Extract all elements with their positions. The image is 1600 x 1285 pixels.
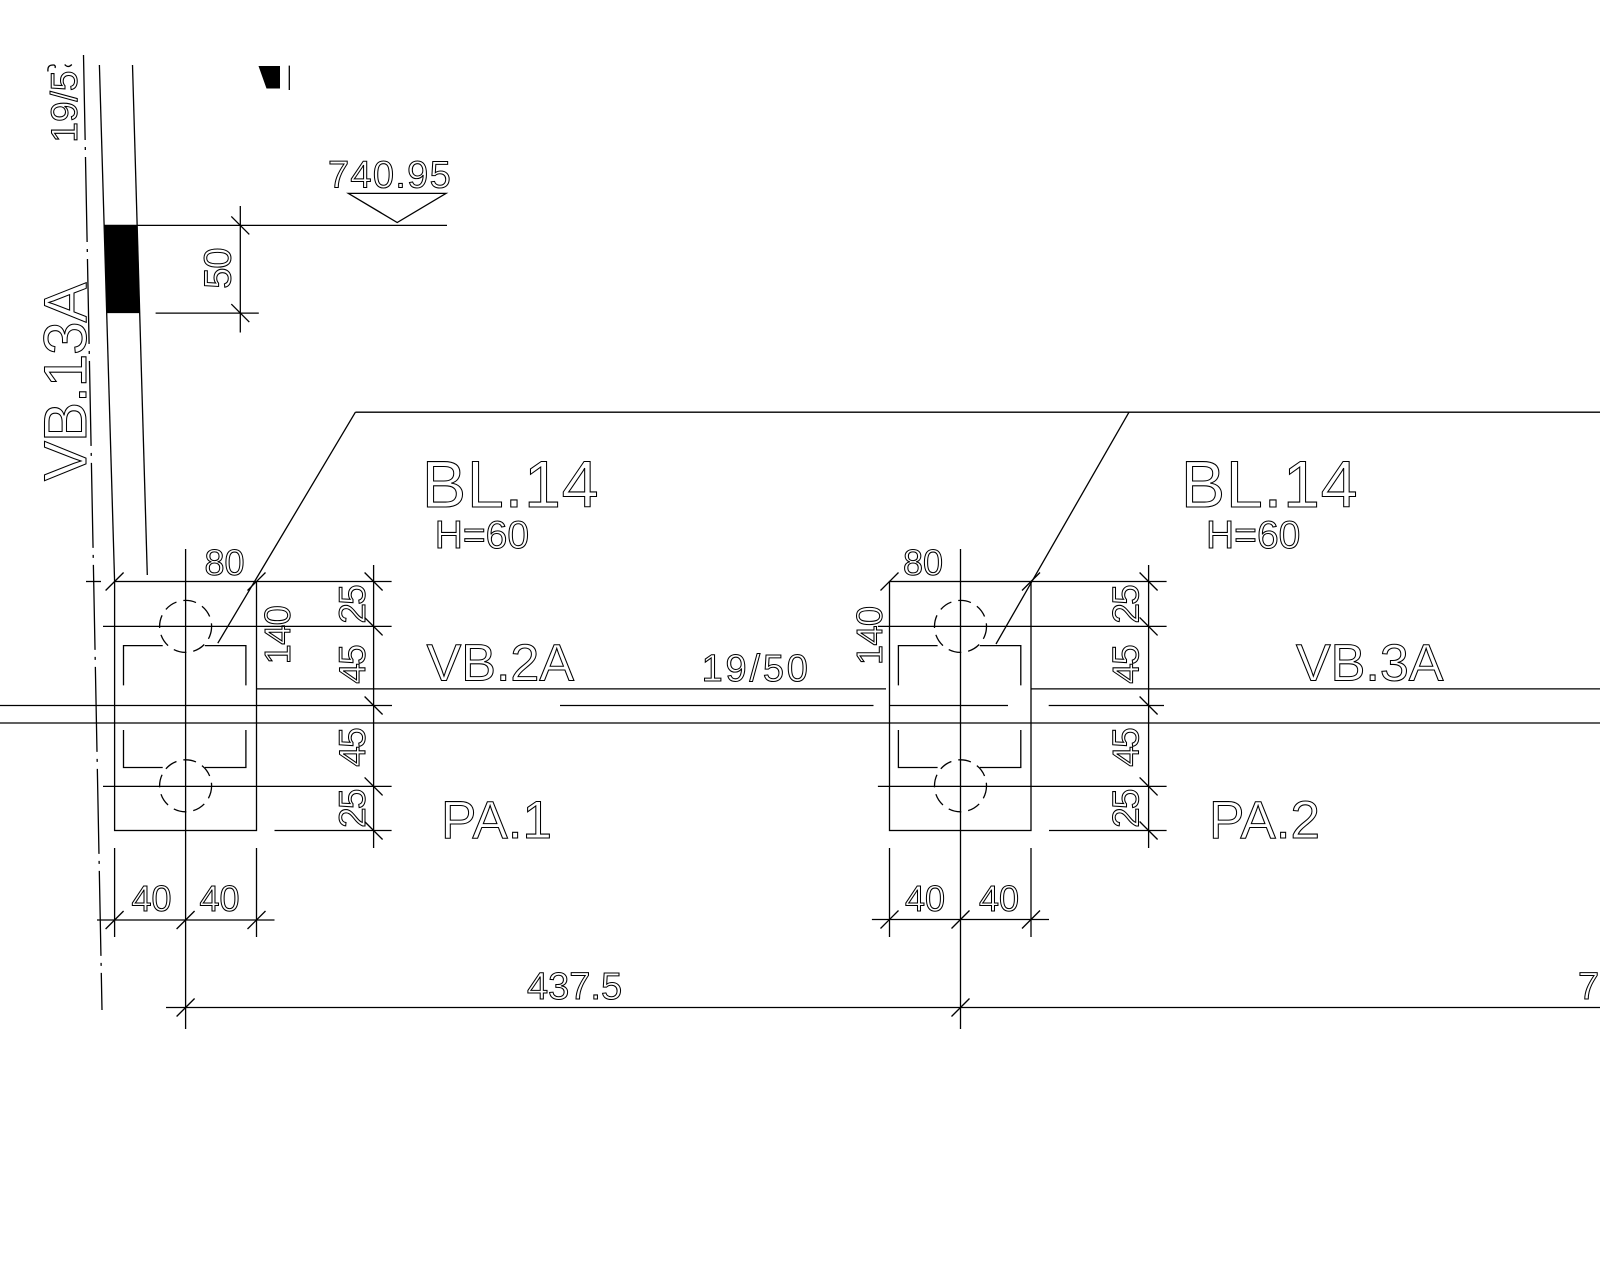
svg-text:45: 45 [332,645,373,684]
40/40 dimension line (PA.2) [872,919,1049,921]
clipped glyph fragment b (top-left) [65,65,72,67]
svg-text:45: 45 [1106,645,1147,684]
svg-text:45: 45 [332,728,373,767]
svg-text:80: 80 [903,542,943,583]
extension line at bottom bolt axis (PA.2) [878,785,1167,787]
svg-text:H=60: H=60 [435,514,529,557]
chain tick at y=581.5 (PA.2) [1140,573,1158,591]
svg-text:40: 40 [200,878,240,919]
beam VB.3A top edge [1031,688,1600,690]
svg-text:BL.14: BL.14 [422,447,599,521]
slab boundary diagonal to footing PA.1 [218,412,356,643]
footing PA.2 outline [890,582,1032,831]
svg-text:19/50: 19/50 [702,648,811,690]
beam axis line segment 4 [1049,705,1164,707]
chain tick at y=830.5 (PA.2) [1140,822,1158,840]
dimension 50 tick bottom [231,304,249,322]
elevation marker triangle [348,193,446,222]
dimension 50 tick top [231,216,249,234]
footing PA.1 anchor circle top (dashed) [160,600,212,652]
dimension 50 extension line bottom [156,312,259,314]
svg-text:PA.1: PA.1 [441,791,552,850]
extension line at top bolt axis (PA.1) [103,625,392,627]
level line at elevation 740.95 [105,224,448,226]
40/40 tick (PA.2) [1022,911,1040,929]
dimension chain line (footing PA.1) [373,565,375,848]
80-dim tick right corner (PA.2) [1022,573,1040,591]
40/40 extension line left (PA.2) [889,848,891,937]
chain tick at y=705.5 (PA.2) [1140,697,1158,715]
svg-text:19/5: 19/5 [44,71,85,143]
40/40 extension line right (PA.1) [256,848,258,937]
column outline upper bracket (footing PA.1) [124,646,246,686]
cropped label fragment (vertical stroke) [288,66,290,90]
svg-text:25: 25 [332,789,373,828]
svg-text:VB.13A: VB.13A [32,283,99,481]
svg-text:50: 50 [198,249,240,289]
svg-text:7: 7 [1578,966,1599,1008]
extension line at top bolt axis (PA.2) [878,625,1167,627]
svg-text:140: 140 [257,606,298,665]
40/40 dimension line (PA.1) [97,919,275,921]
dimension 50 dimension line [239,206,241,333]
column outline lower bracket (footing PA.1) [124,730,246,768]
footing PA.1 anchor circle bottom (dashed) [160,760,212,812]
svg-text:437.5: 437.5 [527,966,622,1008]
chain tick at y=581.5 (PA.1) [365,573,383,591]
svg-text:VB.3A: VB.3A [1296,635,1444,693]
dimension chain line (footing PA.2) [1148,565,1150,848]
wall edge left (slanted) [99,65,114,582]
short axis dash at footing PA.1 top edge [86,581,101,583]
svg-text:PA.2: PA.2 [1209,791,1320,850]
40/40 extension line left (PA.1) [114,848,116,937]
40/40 tick (PA.1) [106,911,124,929]
extension line at footing bottom (PA.2) [1049,830,1167,832]
40/40 tick (PA.2) [952,911,970,929]
80-dim tick left corner (PA.1) [106,573,124,591]
footing PA.2 anchor circle bottom (dashed) [935,760,987,812]
svg-text:140: 140 [849,606,890,665]
chain tick at y=786.4 (PA.2) [1140,777,1158,795]
beam VB.2A top edge [257,688,887,690]
chain tick at y=705.5 (PA.1) [365,697,383,715]
extension line at bottom bolt axis (PA.1) [103,785,392,787]
footing PA.2 anchor circle top (dashed) [935,600,987,652]
svg-text:740.95: 740.95 [328,154,452,196]
chain tick at y=626.4 (PA.1) [365,617,383,635]
clipped glyph fragment a (top-left) [48,65,55,72]
437.5 tick at PA.2 axis [952,999,970,1017]
svg-text:25: 25 [1106,585,1147,624]
40/40 tick (PA.2) [881,911,899,929]
svg-text:40: 40 [905,878,945,919]
40/40 tick (PA.1) [177,911,195,929]
wall hatch fill (solid black section) [105,225,141,313]
svg-text:80: 80 [205,542,245,583]
svg-text:VB.2A: VB.2A [427,635,575,693]
extension line at footing bottom (PA.1) [275,830,392,832]
cropped label fragment (black trapezoid) [259,66,281,89]
svg-text:25: 25 [332,585,373,624]
svg-text:45: 45 [1106,728,1147,767]
grid axis line VB.13A (dash-dot, slanted) [84,55,103,1010]
80-dim tick right corner (PA.1) [248,573,266,591]
extension line at footing top (PA.1) [257,581,392,583]
svg-text:BL.14: BL.14 [1181,447,1358,521]
footing PA.2 centerline (vertical) [960,549,962,1029]
column outline lower bracket (footing PA.2) [898,730,1020,768]
svg-text:40: 40 [979,878,1019,919]
chain tick at y=626.4 (PA.2) [1140,617,1158,635]
beam axis line segment 1 [0,705,392,707]
slab boundary diagonal to footing PA.2 [996,412,1129,644]
40/40 extension line right (PA.2) [1030,848,1032,937]
extension line at footing top (PA.2) [1031,581,1167,583]
80-dim tick left corner (PA.2) [881,573,899,591]
slab BL.14 boundary line (top) [355,411,1600,413]
svg-text:H=60: H=60 [1206,514,1300,557]
beam axis line segment 3 [890,705,1008,707]
svg-text:25: 25 [1106,789,1147,828]
footing PA.1 outline [115,582,257,831]
beam bottom edge (full width) [0,722,1600,724]
chain tick at y=786.4 (PA.1) [365,777,383,795]
column outline upper bracket (footing PA.2) [898,646,1020,686]
svg-text:40: 40 [132,878,172,919]
wall edge right (slanted) [133,65,148,575]
beam axis line segment 2 [560,705,874,707]
overall dimension line 437.5 [166,1007,1600,1009]
chain tick at y=830.5 (PA.1) [365,822,383,840]
40/40 tick (PA.1) [248,911,266,929]
437.5 tick at PA.1 axis [177,999,195,1017]
footing PA.1 centerline (vertical) [185,549,187,1029]
